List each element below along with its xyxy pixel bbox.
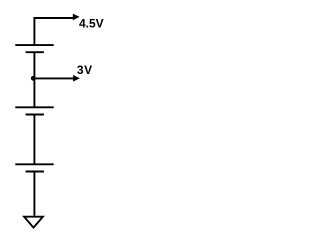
battery B2 short plate	[26, 114, 44, 116]
battery B1 short plate	[26, 51, 44, 53]
ground	[24, 217, 43, 228]
battery B1 long plate	[15, 44, 53, 46]
wire B3 to ground	[33, 172, 35, 216]
wire B2 to B3	[33, 115, 35, 165]
svg-text:3V: 3V	[77, 63, 93, 77]
arrowhead 3V	[73, 75, 80, 82]
wire top horizontal to 4.5V arrow	[34, 18, 73, 44]
wire B1 to B2	[33, 52, 35, 107]
wire 3V tap	[34, 77, 73, 79]
svg-text:4.5V: 4.5V	[79, 17, 104, 31]
battery B2 long plate	[15, 106, 53, 108]
battery B3 short plate	[26, 171, 44, 173]
arrowhead 4.5V	[73, 14, 80, 21]
battery B3 long plate	[15, 163, 53, 165]
node dot	[31, 76, 36, 81]
